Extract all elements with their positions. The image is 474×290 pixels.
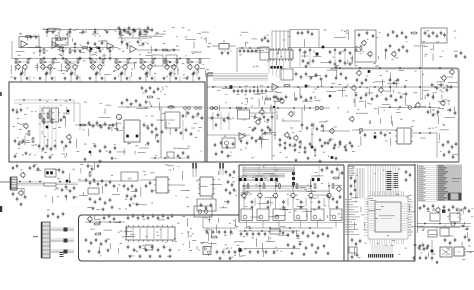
oscillator box — [355, 30, 376, 62]
junction dot — [39, 47, 41, 49]
capacitor C? — [307, 234, 310, 238]
ground — [135, 203, 138, 206]
capacitor C? — [63, 115, 66, 119]
capacitor C? — [305, 246, 308, 250]
junction dot — [129, 58, 131, 60]
capacitor C? — [253, 89, 256, 93]
capacitor C? — [85, 178, 88, 182]
wire bus — [17, 182, 44, 185]
reference designators — [203, 226, 304, 257]
capacitor C? — [224, 230, 227, 234]
wire — [62, 48, 64, 57]
wire stub — [154, 76, 156, 82]
ground — [174, 77, 177, 80]
wire — [202, 217, 204, 228]
wire — [166, 59, 168, 66]
inductor L5 — [315, 106, 323, 109]
capacitor C? — [201, 116, 204, 120]
capacitor C? — [396, 34, 399, 38]
capacitor C? — [16, 110, 19, 114]
wire — [150, 157, 190, 159]
junction dot — [399, 106, 401, 108]
net table grid — [418, 166, 438, 202]
capacitor C? — [264, 131, 267, 135]
jumper pads — [219, 163, 224, 175]
solder pad — [274, 66, 276, 69]
capacitor C? — [58, 46, 62, 49]
IC U15 — [198, 177, 215, 196]
wire — [55, 105, 57, 150]
wire — [275, 196, 277, 209]
wire — [118, 37, 150, 39]
wire — [258, 165, 260, 176]
op-amp U4 — [130, 46, 137, 53]
wire — [239, 221, 344, 223]
wire — [212, 45, 219, 47]
fuse F1 — [448, 193, 461, 200]
capacitor C? — [405, 35, 408, 39]
junction dot — [179, 157, 181, 159]
capacitor C? — [105, 183, 108, 187]
capacitor C? — [156, 133, 159, 137]
ground — [48, 156, 51, 159]
wire — [421, 67, 452, 69]
junction dot — [245, 107, 247, 109]
capacitor C? — [307, 30, 310, 34]
inductor L4 — [359, 128, 363, 132]
power rail corner — [456, 68, 459, 162]
capacitor C10 — [119, 30, 124, 35]
capacitor C? — [21, 71, 24, 75]
diode D9 — [305, 85, 308, 88]
wire — [289, 30, 291, 68]
left edge mark — [0, 92, 2, 96]
resistor bias — [140, 58, 142, 64]
reference designators — [20, 164, 237, 211]
ground — [24, 152, 27, 155]
capacitor C? — [461, 225, 465, 228]
capacitor C? — [14, 139, 17, 143]
capacitor C? — [233, 170, 236, 174]
ground — [40, 156, 43, 159]
capacitor C? — [264, 232, 267, 236]
junction dot — [404, 86, 406, 88]
capacitor C? — [304, 150, 307, 154]
resistor bias — [52, 58, 54, 64]
inductor L? — [199, 107, 202, 110]
junction dot — [29, 181, 31, 183]
capacitor C? — [247, 49, 250, 53]
capacitor C? — [211, 116, 214, 120]
capacitor C? — [42, 147, 45, 151]
capacitor C? — [324, 141, 327, 145]
capacitor C? — [99, 149, 102, 153]
junction dot — [39, 99, 41, 101]
capacitor C? — [61, 140, 64, 144]
ground — [334, 157, 337, 160]
capacitor C? — [339, 140, 342, 144]
capacitor emitter — [20, 72, 23, 76]
capacitor C? — [320, 77, 323, 81]
wire — [334, 48, 336, 67]
capacitor C? — [154, 49, 158, 52]
capacitor C? — [57, 215, 60, 219]
resistor R2 — [60, 38, 67, 40]
capacitor C? — [104, 122, 107, 126]
wire — [196, 69, 198, 76]
header J3 — [269, 48, 293, 61]
capacitor C? — [371, 97, 374, 101]
capacitor C? — [60, 118, 63, 122]
capacitor C? — [334, 48, 337, 52]
capacitor emitter — [145, 72, 148, 76]
capacitor C? — [157, 248, 160, 252]
capacitor C? — [311, 32, 314, 36]
wire — [275, 182, 277, 192]
wire — [24, 69, 26, 76]
IC U13 — [121, 172, 138, 181]
wire — [20, 76, 22, 82]
ground — [138, 77, 141, 80]
resistor R? — [314, 183, 316, 189]
wire — [259, 182, 261, 192]
wire — [85, 221, 125, 223]
wire — [207, 134, 250, 136]
connector J2 — [41, 222, 50, 258]
wire — [119, 30, 121, 38]
junction dot — [99, 221, 101, 223]
ground — [282, 206, 285, 209]
ground — [299, 206, 302, 209]
wire — [75, 124, 118, 126]
junction dot — [359, 67, 361, 69]
capacitor C? — [113, 184, 116, 188]
junction dot — [249, 227, 251, 229]
capacitor C? — [12, 108, 15, 112]
capacitor C? — [425, 256, 428, 260]
wire — [95, 76, 97, 82]
capacitor C? — [246, 232, 249, 236]
ground — [128, 255, 131, 258]
capacitor C? — [71, 71, 74, 75]
junction dot — [119, 221, 121, 223]
microcontroller U16 socket — [368, 196, 408, 239]
MCU pins top — [370, 191, 404, 196]
capacitor C? — [193, 71, 196, 75]
wire — [287, 31, 289, 50]
capacitor C? — [454, 238, 457, 242]
transistor Q48 — [279, 98, 285, 104]
capacitor C? — [109, 198, 112, 202]
capacitor bypass — [62, 49, 67, 54]
capacitor C? — [443, 153, 446, 157]
capacitor C? — [440, 83, 443, 87]
capacitor C? — [149, 86, 152, 90]
diode D5 — [89, 151, 91, 153]
junction dot — [89, 221, 91, 223]
junction dot — [419, 132, 421, 134]
wire — [163, 61, 179, 63]
ground — [290, 252, 293, 255]
wire stub — [104, 76, 106, 82]
crystal Y1 — [349, 247, 357, 253]
capacitor C? — [130, 197, 133, 201]
wire — [49, 69, 51, 76]
capacitor C? — [104, 201, 107, 205]
junction dot — [154, 157, 156, 159]
transistor Q23 — [449, 69, 455, 75]
capacitor C? — [147, 216, 150, 220]
IC U17 — [126, 225, 175, 242]
block border left edge — [206, 73, 208, 162]
wire — [293, 170, 295, 188]
capacitor C? — [97, 164, 100, 168]
capacitor C? — [292, 230, 295, 234]
capacitor C? — [93, 178, 96, 182]
capacitor C? — [322, 232, 325, 236]
wire — [79, 103, 81, 130]
capacitor C? — [279, 138, 282, 142]
capacitor C? — [400, 95, 403, 99]
junction dot — [79, 58, 81, 60]
connector J4 — [454, 247, 466, 256]
ground — [150, 77, 153, 80]
wire — [78, 180, 121, 182]
resistor R? — [94, 223, 101, 225]
capacitor bypass — [79, 49, 84, 54]
capacitor C? — [108, 214, 111, 218]
capacitor C? — [287, 243, 290, 247]
capacitor C? — [227, 51, 232, 56]
wire — [243, 165, 245, 176]
capacitor C? — [118, 26, 121, 30]
junction dot — [279, 230, 281, 232]
wire — [290, 67, 330, 69]
reference designators — [420, 208, 472, 260]
resistor R? — [43, 118, 45, 124]
resistor R? — [82, 47, 89, 49]
wire — [274, 165, 276, 176]
capacitor C? — [251, 200, 254, 204]
capacitor C? — [95, 46, 99, 49]
ground — [260, 129, 263, 132]
wire — [120, 76, 122, 82]
capacitor C? — [18, 142, 21, 146]
capacitor C? — [401, 31, 404, 35]
wire — [17, 59, 19, 66]
junction dot — [69, 181, 71, 183]
capacitor C? — [424, 31, 427, 35]
comparator U10 — [222, 138, 235, 148]
capacitor C? — [345, 76, 348, 80]
ferrite bead — [64, 239, 68, 243]
capacitor C? — [192, 115, 195, 119]
wire — [47, 105, 49, 150]
IC U7 — [167, 152, 174, 158]
supply filter box — [421, 28, 447, 43]
transistor Q46 — [293, 135, 299, 141]
capacitor C? — [90, 241, 93, 245]
wire — [301, 108, 303, 130]
inductor L? — [195, 107, 198, 110]
ground — [75, 77, 78, 80]
transistor Q4 — [47, 64, 53, 70]
junction dot — [297, 86, 299, 88]
capacitor C? — [333, 146, 336, 150]
net label header — [208, 72, 214, 77]
junction dot — [109, 221, 111, 223]
wire — [318, 165, 320, 176]
wire bus bend — [275, 60, 277, 77]
capacitor C? — [449, 108, 452, 112]
reference designators — [217, 84, 448, 95]
transistor Q33 — [20, 172, 25, 178]
wire — [299, 48, 301, 67]
capacitor C2 — [35, 35, 40, 40]
wire — [310, 182, 312, 192]
capacitor C? — [364, 133, 367, 137]
junction dot — [310, 185, 312, 187]
junction dot — [277, 107, 279, 109]
capacitor C? — [139, 245, 142, 249]
ground — [250, 206, 253, 209]
capacitor C? — [305, 72, 308, 76]
wire — [14, 102, 80, 104]
capacitor C? — [304, 50, 307, 54]
wire — [328, 196, 330, 209]
wire — [243, 196, 245, 209]
capacitor C? — [325, 74, 328, 78]
capacitor C? — [87, 41, 90, 45]
note text — [452, 178, 461, 182]
capacitor C? — [113, 217, 116, 221]
capacitor C? — [427, 110, 430, 114]
junction dot — [104, 58, 106, 60]
capacitor emitter — [70, 72, 73, 76]
microcontroller U16 — [375, 202, 401, 232]
junction dot — [257, 47, 259, 49]
module box — [194, 206, 212, 217]
capacitor C? — [365, 78, 368, 82]
ground — [185, 77, 188, 80]
resistor bias — [27, 58, 29, 64]
capacitor C? — [331, 170, 334, 174]
transistor Q43 — [435, 207, 441, 213]
ground — [61, 57, 64, 60]
junction dot — [429, 106, 431, 108]
capacitor C? — [335, 76, 338, 80]
capacitor C? — [233, 188, 236, 192]
bus to pads — [372, 244, 392, 254]
capacitor C? — [251, 49, 254, 53]
capacitor C? — [299, 140, 302, 144]
capacitor C? — [147, 26, 150, 30]
ground — [64, 195, 67, 198]
capacitor C? — [263, 115, 266, 119]
capacitor C? — [454, 111, 457, 115]
capacitor C? — [380, 131, 383, 135]
block border top — [348, 164, 415, 166]
wire — [417, 223, 471, 225]
wire — [173, 69, 175, 76]
capacitor C? — [431, 83, 434, 87]
wire — [114, 61, 130, 63]
transistor Q42 — [87, 216, 93, 222]
transistor Q47 — [329, 128, 335, 134]
ground — [63, 77, 66, 80]
capacitor C? — [88, 121, 91, 125]
op-amp U2 feedback loop — [52, 38, 68, 45]
capacitor C? — [227, 116, 230, 120]
block border bottom-left — [79, 215, 240, 261]
transistor Q32 — [349, 116, 355, 122]
ground — [318, 160, 321, 163]
transistor Q41 — [336, 186, 342, 192]
junction dot — [345, 86, 347, 88]
wire — [118, 106, 203, 108]
capacitor C? — [123, 184, 126, 188]
capacitor C? — [230, 230, 233, 234]
ground — [98, 160, 101, 163]
op-amp U3 — [107, 43, 114, 50]
capacitor C? — [427, 244, 430, 248]
diode D22 — [442, 210, 445, 213]
diode D14 — [331, 156, 334, 159]
capacitor C? — [319, 138, 322, 142]
capacitor C? — [91, 167, 94, 171]
ground — [113, 77, 116, 80]
capacitor C? — [221, 150, 224, 154]
capacitor C? — [413, 256, 416, 260]
capacitor C? — [216, 250, 219, 254]
resistor R? — [236, 107, 243, 109]
capacitor C? — [455, 54, 458, 58]
capacitor C? — [258, 232, 261, 236]
capacitor C? — [329, 138, 332, 142]
ground — [253, 127, 256, 130]
IC U21 — [448, 213, 462, 222]
resistor R? — [296, 183, 298, 189]
capacitor C? — [422, 243, 425, 247]
capacitor C? — [419, 206, 422, 210]
junction dot — [144, 61, 146, 63]
capacitor C? — [351, 255, 354, 259]
capacitor C? — [299, 242, 302, 246]
capacitor C? — [151, 245, 154, 249]
capacitor C? — [305, 98, 308, 102]
capacitor C? — [406, 49, 409, 53]
ground — [138, 255, 141, 258]
ground — [304, 65, 307, 68]
ground — [125, 77, 128, 80]
relay K1 — [42, 108, 50, 122]
transistor Q7 — [90, 64, 96, 70]
capacitor C? — [267, 118, 270, 122]
pin labels — [344, 199, 360, 235]
capacitor C? — [336, 167, 339, 171]
capacitor bypass — [89, 49, 94, 54]
transistor Q29 — [259, 109, 265, 115]
ground — [13, 155, 16, 158]
diode D? — [312, 178, 315, 181]
capacitor C? — [314, 148, 317, 152]
capacitor C? — [114, 146, 117, 150]
resistor R7 — [44, 183, 56, 186]
capacitor C? — [128, 26, 131, 30]
capacitor C? — [372, 34, 375, 38]
ground — [78, 57, 81, 60]
transistor Q34 — [18, 190, 23, 196]
